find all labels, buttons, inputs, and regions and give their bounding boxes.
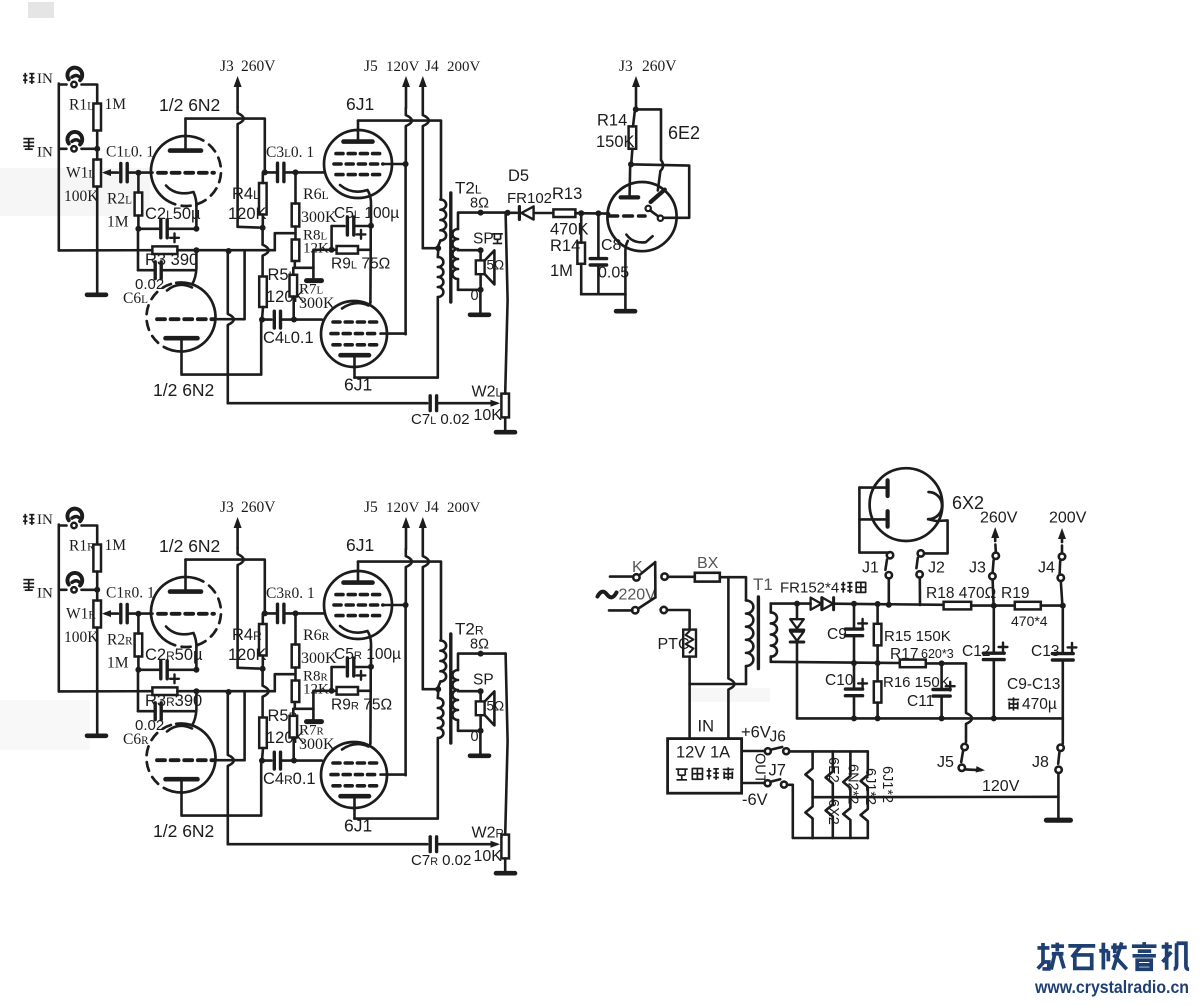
svg-text:8Ω: 8Ω <box>470 196 489 212</box>
svg-text:J1: J1 <box>862 560 879 577</box>
resistor R9L 75Ω <box>337 246 358 254</box>
svg-text:J3: J3 <box>969 560 986 577</box>
plate lead 6E2 <box>628 164 631 195</box>
svg-text:R17: R17 <box>890 646 918 663</box>
svg-text:10K: 10K <box>474 407 503 424</box>
ground below W2 <box>504 858 507 871</box>
svg-text:150K: 150K <box>596 133 635 151</box>
J5 vertical lower <box>404 605 407 775</box>
plate wire 6J1a to OPT <box>358 121 441 200</box>
wire W1 bottom to common rail <box>96 628 99 692</box>
node doubler branch <box>794 601 800 607</box>
cathode arc V1a <box>166 186 196 207</box>
node J3/C12 <box>991 603 997 609</box>
svg-text:PTC: PTC <box>658 636 690 653</box>
svg-text:C2R50µ: C2R50µ <box>145 646 203 664</box>
resistor R13 470K <box>553 209 575 217</box>
connector J6 +6V <box>742 750 765 753</box>
capacitor C2R 50µ <box>138 668 160 671</box>
ground 6E2 <box>624 294 627 309</box>
grid dashes V1b <box>157 317 214 321</box>
svg-text:J3: J3 <box>619 58 633 75</box>
plate lead 6X2 lower <box>859 518 885 521</box>
capacitor C8 0.05 <box>597 213 600 258</box>
cathode lead V1a <box>195 206 198 229</box>
heater return wire <box>813 795 1059 798</box>
wire R8 bottom to bias/ground node <box>295 250 337 268</box>
wire jack1 to R1R <box>82 526 98 545</box>
wire C1 to grid <box>127 171 152 174</box>
svg-text:300K: 300K <box>299 295 335 312</box>
svg-text:IN: IN <box>37 512 53 528</box>
grid dashes 6J1a <box>336 593 381 597</box>
grid dashes 6J1a <box>336 152 381 156</box>
svg-text:C12: C12 <box>962 643 990 660</box>
capacitor C1R 0.1 <box>119 604 122 622</box>
svg-text:260V: 260V <box>241 499 276 516</box>
heater bus top <box>813 750 868 753</box>
capacitor C5L 100µ <box>332 225 345 228</box>
transformer core <box>449 193 452 302</box>
resistor R3R 390 in rail <box>152 687 177 695</box>
resistor R3L 390 in rail <box>152 246 177 254</box>
connector J3 psu <box>994 533 997 541</box>
svg-text:J4: J4 <box>425 499 439 516</box>
wire 8ohm to D5 <box>508 212 517 215</box>
svg-text:C7L 0.02: C7L 0.02 <box>411 411 470 428</box>
node C8 top <box>595 210 601 216</box>
node R4 bottom <box>260 666 266 672</box>
plate bar 6X2 upper <box>885 480 889 496</box>
wire C5/R9 left vertical <box>330 226 333 250</box>
svg-text:T1: T1 <box>753 575 773 594</box>
capacitor C2L 50µ <box>138 228 160 231</box>
svg-text:R14: R14 <box>597 112 627 130</box>
input jack 弱IN R-channel <box>67 573 82 586</box>
wire switch to PTC <box>667 610 690 630</box>
grid dashes V1a <box>158 612 214 616</box>
node J3/R14/6E2 top <box>633 106 639 112</box>
svg-text:SP: SP <box>473 672 494 689</box>
cathode return wire 6E2 <box>581 293 625 296</box>
capacitor C3L 0.1 <box>276 163 279 181</box>
screen wire 6J1a to J5 line <box>383 604 406 607</box>
resistor R8L 12K <box>292 240 300 262</box>
input jack 弱IN L-channel <box>67 132 82 145</box>
resistor R15 150K <box>875 601 881 607</box>
heater bus bottom <box>813 837 868 840</box>
resistor R5R 120K <box>259 718 267 749</box>
resistor R2R 1M <box>135 634 143 657</box>
node R4 bottom <box>260 225 266 231</box>
plate bar 6X2 lower <box>885 511 889 526</box>
diode D3 down <box>796 604 799 620</box>
cathode arc V1b <box>167 285 192 291</box>
grid wire V1b to bias node <box>215 692 245 760</box>
svg-text:6X2: 6X2 <box>825 799 841 825</box>
secondary bottom wire <box>458 729 481 732</box>
wire C7 to W2 wiper arrow <box>437 843 497 846</box>
resistor R2L 1M <box>135 193 143 216</box>
wire input common vertical <box>57 84 60 251</box>
resistor R14 150K <box>629 126 637 148</box>
secondary tap to speaker <box>458 249 479 252</box>
anode lead 6J1a <box>357 121 360 140</box>
transformer T2L primary lower <box>438 257 444 297</box>
svg-text:IN: IN <box>37 145 53 161</box>
bottom rail power <box>797 717 1063 720</box>
resistor R1L 1M <box>93 104 101 131</box>
transformer core <box>449 634 452 743</box>
feedback vertical with hop <box>228 251 234 403</box>
right loop wire to ray electrode <box>631 164 689 217</box>
resistor R6L 300K <box>292 204 300 227</box>
svg-text:6N2*2: 6N2*2 <box>845 764 861 804</box>
svg-text:1M: 1M <box>105 96 127 113</box>
anode bar V1a <box>170 589 201 594</box>
J5 vertical lower <box>404 164 407 334</box>
node jack2/R1/W1 <box>94 587 100 593</box>
svg-text:C4R0.1: C4R0.1 <box>263 770 316 788</box>
ground input section <box>96 691 99 734</box>
node J1 bottom <box>886 602 892 608</box>
svg-text:C8: C8 <box>601 237 622 254</box>
node R13/R14 <box>578 210 584 216</box>
resistor R14 1M <box>577 243 585 264</box>
svg-text:FR102: FR102 <box>507 190 552 207</box>
wire C1 to grid <box>127 612 152 615</box>
svg-text:12V 1A: 12V 1A <box>676 744 730 762</box>
svg-text:J6: J6 <box>770 729 786 746</box>
J4 arrow <box>421 82 424 108</box>
plate lead 6J1b <box>353 357 356 378</box>
potentiometer W2L 10K <box>501 394 509 418</box>
capacitor C10 470µ <box>853 663 856 688</box>
capacitor C3R 0.1 <box>276 604 279 622</box>
ground below speaker <box>479 290 482 313</box>
node R7 bottom on C4 row <box>291 758 297 764</box>
node rail to feedback drop <box>226 248 232 254</box>
node grid1/R2 top <box>135 170 141 176</box>
anode wire V1a to R4 top <box>186 119 265 173</box>
svg-text:C11: C11 <box>907 693 934 710</box>
svg-text:260V: 260V <box>241 58 276 75</box>
svg-text:C13: C13 <box>1031 643 1059 660</box>
node 0 <box>478 287 484 293</box>
connector J5 <box>961 744 967 750</box>
screen wire 6J1b to J5 <box>381 332 406 335</box>
svg-text:8Ω: 8Ω <box>470 637 489 653</box>
svg-text:J5: J5 <box>937 754 954 771</box>
capacitor C4R 0.1 <box>262 759 271 762</box>
resistor R4R 120K <box>259 624 267 656</box>
J5 vertical with hop <box>406 549 412 605</box>
rail right of R3 <box>177 249 274 252</box>
J5 arrow <box>405 523 408 549</box>
node W2L top / line to D5 <box>505 210 511 216</box>
hop 6E2 target lead <box>658 160 663 190</box>
hop R4-R5 over rail <box>263 228 269 277</box>
resistor R18 470ohm <box>944 602 972 610</box>
pentode 6J1 lower R <box>321 742 387 808</box>
diode D5 FR102 <box>518 207 521 220</box>
svg-text:6E2: 6E2 <box>825 757 841 783</box>
svg-text:100K: 100K <box>64 629 99 646</box>
secondary tap to speaker <box>458 690 479 693</box>
capacitor C6R 0.02 <box>137 691 140 711</box>
primary tap node <box>435 686 441 692</box>
svg-text:J4: J4 <box>425 58 439 75</box>
svg-text:R14: R14 <box>550 237 580 255</box>
svg-text:200V: 200V <box>1049 510 1087 527</box>
connector J8 <box>1062 718 1065 743</box>
wire R2/R3 left vertical <box>137 229 140 250</box>
cathode arc V1a <box>166 627 196 648</box>
triode V1a 1/2 6N2 L <box>175 137 221 206</box>
wire 6X2 plates to J1 <box>859 488 888 553</box>
svg-text:C9: C9 <box>827 626 847 643</box>
svg-text:R18 470Ω: R18 470Ω <box>926 585 996 602</box>
resistor R16 150K <box>876 663 879 681</box>
rail corner up to R6/R8 junction wire <box>275 233 294 250</box>
resistor R19 470*4 <box>1015 602 1041 610</box>
diode D2 FR152 <box>822 598 833 610</box>
grid dashes 6J1b <box>333 320 377 324</box>
wire W1 bottom to common rail <box>96 187 99 251</box>
cathode arc V1b <box>167 726 192 732</box>
svg-text:6J1: 6J1 <box>346 535 374 555</box>
svg-text:R4R: R4R <box>232 626 262 644</box>
transformer T1 core <box>757 597 760 669</box>
wire R6 to R8 <box>294 227 297 240</box>
wire 8ohm node down to W2 <box>505 213 507 394</box>
common rail left segment <box>59 690 153 693</box>
wire R19 to node <box>1041 604 1063 607</box>
svg-text:470*4: 470*4 <box>1011 613 1048 629</box>
svg-text:6J1: 6J1 <box>346 94 374 114</box>
transformer T2R primary upper <box>440 641 446 682</box>
wire shared cathode vertical <box>369 226 372 250</box>
ground J8 <box>1046 818 1070 823</box>
wire R1 bottom <box>96 572 99 590</box>
connector J1 <box>887 552 893 558</box>
svg-text:D5: D5 <box>508 167 529 185</box>
svg-text:J4: J4 <box>1038 560 1055 577</box>
plate bar V1b <box>166 777 198 782</box>
wire D5 to R13 <box>534 212 554 215</box>
resistor R8R 12K <box>292 681 300 703</box>
node plate2/R5/C4 <box>259 317 265 323</box>
wire primary bottom to PTC line <box>690 683 746 686</box>
svg-text:J8: J8 <box>1032 754 1049 771</box>
capacitor C7R 0.02 <box>429 837 432 852</box>
node C2 right / cathode <box>193 667 199 673</box>
wire PTC down <box>688 657 691 739</box>
svg-text:J7: J7 <box>769 762 786 780</box>
svg-text:300K: 300K <box>301 209 337 226</box>
wire BX branch to 12V IN with hop <box>728 577 734 739</box>
transformer T2R primary lower <box>438 698 444 738</box>
node R3 right / cathode <box>193 247 199 253</box>
svg-text:R9R 75Ω: R9R 75Ω <box>331 697 392 714</box>
capacitor C12 470µ <box>992 606 995 653</box>
svg-text:1/2 6N2: 1/2 6N2 <box>159 536 220 556</box>
svg-text:5Ω: 5Ω <box>487 258 505 273</box>
node screen/J5 <box>403 161 409 167</box>
svg-text:120K: 120K <box>228 205 267 223</box>
grid dashes V1b <box>157 758 214 762</box>
ground input section <box>96 250 99 293</box>
pentode 6J1 upper R <box>324 571 392 639</box>
potentiometer W2R 10K <box>501 835 509 859</box>
cathode lead 6E2 <box>625 241 627 294</box>
capacitor C4L 0.1 <box>262 318 271 321</box>
J5 arrow <box>405 82 408 108</box>
node C11 top <box>939 660 945 666</box>
J3 arrow right <box>635 82 638 109</box>
J3 arrow <box>236 82 239 107</box>
svg-text:1/2 6N2: 1/2 6N2 <box>159 95 220 115</box>
svg-text:SP: SP <box>473 231 494 248</box>
svg-text:J3: J3 <box>220 58 234 75</box>
svg-text:www.crystalradio.cn: www.crystalradio.cn <box>1034 977 1189 997</box>
node C10 bottom <box>851 715 857 721</box>
primary bottom to 6J1b plate <box>355 738 438 819</box>
J5 feed with hop over rail <box>966 663 972 742</box>
svg-text:300K: 300K <box>299 736 335 753</box>
ground bar at R8/R9 <box>312 709 315 720</box>
svg-text:200V: 200V <box>447 500 481 516</box>
heater branch 6E2/6X2 <box>805 751 812 838</box>
plate bar 6J1b <box>341 353 370 358</box>
cathode arc 6J1b <box>342 302 370 309</box>
svg-text:IN: IN <box>698 718 715 736</box>
node cathode 6J1s <box>368 664 374 670</box>
svg-text:J2: J2 <box>928 560 945 577</box>
AC source 220V terminals <box>610 575 633 578</box>
J4 to primary tap <box>423 688 438 691</box>
wire jack2 to W1 <box>82 588 95 591</box>
capacitor C7L 0.02 <box>429 396 432 411</box>
resistor R6R 300K <box>292 645 300 668</box>
svg-text:5Ω: 5Ω <box>487 699 505 714</box>
cathode arc 6J1a <box>340 626 371 647</box>
svg-text:OUT: OUT <box>752 753 768 784</box>
PTC thermistor <box>683 630 696 657</box>
svg-text:FR152*4: FR152*4 <box>780 580 839 597</box>
anode bar 6J1a <box>344 580 373 585</box>
feedback vertical with hop <box>228 692 234 844</box>
cathode arc 6E2 <box>626 235 652 243</box>
hop R4-R5 over rail <box>263 669 269 718</box>
speaker SPFalse R <box>479 691 482 701</box>
capacitor C9 470µ <box>851 601 857 607</box>
J3 feed vertical with hop <box>238 548 244 668</box>
node R9 left <box>329 688 335 694</box>
node grid1/R2 top <box>135 611 141 617</box>
triode V1b 1/2 6N2 L <box>147 283 177 350</box>
svg-text:6E2: 6E2 <box>668 123 700 143</box>
svg-text:C3L0. 1: C3L0. 1 <box>266 144 314 161</box>
potentiometer W1R 100K <box>93 601 101 628</box>
capacitor C6L 0.02 <box>137 250 140 270</box>
anode lead 6J1a <box>357 562 360 581</box>
connector J4 psu <box>1061 534 1064 542</box>
wire doubler branch down <box>796 642 799 718</box>
node J4/C13 <box>1060 603 1066 609</box>
wiper arrow of W1 <box>106 612 119 615</box>
svg-text:C9-C13: C9-C13 <box>1007 676 1060 693</box>
svg-text:260V: 260V <box>642 58 677 75</box>
node C2 left / R2 bottom <box>135 667 141 673</box>
wire switch to fuse <box>668 575 695 578</box>
svg-text:470µ: 470µ <box>1022 696 1057 713</box>
mid rail 120V <box>771 662 900 663</box>
rectifier top wire <box>771 602 811 605</box>
wire 6X2 cathode to J2 <box>924 519 947 553</box>
svg-text:120V: 120V <box>982 778 1020 795</box>
node R16 bottom <box>875 715 881 721</box>
node C11 bottom <box>939 715 945 721</box>
J5 vertical with hop <box>406 108 412 164</box>
svg-text:C10: C10 <box>825 672 854 689</box>
ground below speaker <box>479 731 482 754</box>
feedback bottom wire <box>228 402 427 405</box>
node C2 right / cathode <box>193 226 199 232</box>
J3 feed corner to R4 bottom <box>238 666 259 669</box>
common rail left segment <box>59 249 153 252</box>
plate wire 6J1a to OPT <box>358 562 441 641</box>
svg-text:200V: 200V <box>447 59 481 75</box>
heater branch 6N2*2 <box>826 751 833 838</box>
triode V1b 1/2 6N2 R <box>147 724 177 791</box>
svg-text:R4L: R4L <box>232 185 260 203</box>
diode D4 down <box>790 632 804 641</box>
node screen/J5 <box>403 602 409 608</box>
fuse BX <box>695 573 720 582</box>
svg-text:IN: IN <box>37 586 53 602</box>
target bar 6E2 diagonal <box>651 190 665 202</box>
wire R2/R3 left vertical <box>137 670 140 691</box>
pentode 6J1 upper L <box>324 130 392 198</box>
plate lead 6X2 upper <box>859 486 885 489</box>
svg-text:6J1*2: 6J1*2 <box>879 766 895 803</box>
node speaker tap <box>478 247 484 253</box>
speaker SPTrue L <box>479 250 482 260</box>
vertical cathode1 to cathode2 link <box>192 250 196 284</box>
anode lead V1a <box>184 560 187 590</box>
svg-text:C7R 0.02: C7R 0.02 <box>411 852 471 869</box>
screen wire 6J1a to J5 line <box>383 163 406 166</box>
wire R17 to J5 corner <box>926 662 966 665</box>
heater branch 6J1*2 a <box>843 751 850 838</box>
J3 feed corner to R4 bottom <box>238 226 259 229</box>
node R15 bottom <box>875 660 881 666</box>
rail corner up to R6/R8 junction wire <box>275 674 294 691</box>
plate bar 6E2 <box>621 195 639 199</box>
cathode arc 6J1a <box>340 185 371 206</box>
cathode arc 6J1b <box>342 743 370 750</box>
diode D1 FR152 <box>811 598 822 610</box>
pentode 6J1 lower L <box>321 301 387 367</box>
tube 6X2 <box>870 468 943 541</box>
input jack 强IN R-channel <box>67 509 82 522</box>
transformer T1 primary <box>746 600 753 666</box>
svg-text:C5L 100µ: C5L 100µ <box>334 205 399 222</box>
potentiometer W1L 100K <box>93 160 101 187</box>
grid wire V1b to bias node <box>215 251 245 319</box>
node jack2/R1/W1 <box>94 146 100 152</box>
